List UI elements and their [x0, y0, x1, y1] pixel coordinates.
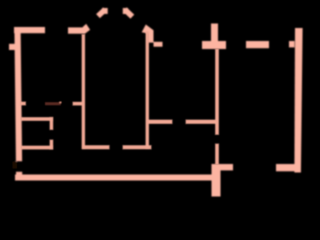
interior partition y102 seg a: [21, 102, 26, 105]
dark door marker D1: [13, 162, 18, 169]
interior thin vertical P2: [146, 32, 149, 149]
closet bottom wall P6: [21, 146, 53, 149]
left exterior wall upper W5: [14, 27, 22, 161]
partition seg b light tip: [59, 102, 61, 104]
bottom-right stub W11: [276, 164, 296, 171]
stub right of bay W4: [154, 42, 163, 47]
interior partition y102 seg c: [73, 102, 82, 105]
closet right vertical upper P4: [50, 118, 53, 130]
bay diagonal segment B3: [127, 11, 131, 14]
top-right horizontal wall W13: [246, 41, 269, 48]
right exterior wall W12: [294, 28, 302, 173]
wall top horizontal W2 (left of bay): [68, 27, 85, 33]
T horizontal wall W16: [202, 41, 226, 49]
closet right vertical lower P5: [50, 140, 53, 149]
interior thin vertical upper P11: [216, 49, 219, 134]
bay corner arrow B1: [83, 24, 90, 34]
wall top-left horizontal W1: [14, 27, 45, 33]
T vertical wall W15: [211, 24, 218, 42]
interior thin vertical lower P12: [216, 144, 219, 164]
mid horizontal wall left P9: [148, 120, 172, 124]
interior thin vertical P1: [82, 35, 85, 149]
left exterior wall lower W6: [16, 172, 22, 181]
bay diagonal segment B2: [100, 11, 103, 14]
bay corner elbow B4+W3: [142, 25, 154, 43]
mid horizontal wall right P10: [186, 120, 218, 124]
top-right small block W14: [289, 41, 295, 47]
closet top wall P3: [21, 118, 53, 121]
bottom-center wide vertical W9: [212, 164, 221, 197]
interior partition y102 seg b (dark): [45, 102, 61, 105]
center room bottom wall right P8: [123, 146, 151, 149]
center room bottom wall left P7: [83, 146, 110, 149]
bay top block B3b: [123, 8, 128, 14]
stub right of W9 W10: [221, 164, 234, 170]
left stub W7: [9, 44, 15, 50]
bay top block B2b: [102, 8, 108, 14]
bottom exterior wall W8: [15, 175, 212, 181]
